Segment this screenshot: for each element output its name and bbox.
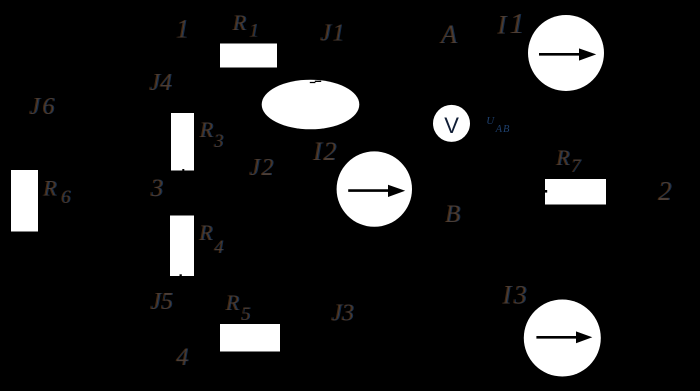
svg-text:R: R: [42, 175, 57, 200]
svg-text:4: 4: [214, 237, 224, 258]
svg-text:7: 7: [571, 156, 582, 177]
svg-text:U: U: [486, 115, 495, 127]
svg-text:R: R: [555, 145, 570, 170]
resistor R3: [171, 113, 194, 171]
resistor label R3: [198, 117, 224, 152]
current source I1: [528, 15, 604, 91]
voltage source E (ellipse): [262, 80, 360, 130]
branch label J1: [320, 21, 347, 47]
svg-text:R: R: [231, 10, 246, 35]
branch label J4: [149, 70, 173, 96]
resistor R7: [545, 179, 606, 205]
svg-text:J6: J6: [29, 94, 57, 120]
branch label J5: [150, 289, 174, 315]
branch label J3: [331, 301, 355, 327]
source label I2: [312, 137, 339, 166]
svg-text:5: 5: [241, 304, 251, 325]
voltmeter V: [433, 105, 470, 142]
svg-text:2: 2: [658, 176, 672, 206]
node 2 label: [658, 176, 673, 206]
source label I3: [501, 281, 530, 310]
svg-text:1: 1: [249, 21, 258, 42]
node A label: [439, 20, 458, 49]
source label I1: [496, 8, 525, 40]
svg-text:J2: J2: [249, 155, 275, 181]
resistor R6: [11, 170, 38, 232]
svg-text:1: 1: [176, 14, 189, 43]
svg-text:I: I: [496, 11, 507, 40]
svg-text:B: B: [445, 201, 460, 228]
svg-text:3: 3: [149, 175, 163, 202]
svg-text:J3: J3: [331, 301, 354, 327]
node B label: [445, 201, 461, 228]
branch label J2: [249, 155, 276, 181]
svg-text:6: 6: [61, 187, 71, 208]
resistor label R5: [224, 290, 251, 325]
svg-text:I2: I2: [312, 137, 338, 166]
svg-text:V: V: [444, 113, 459, 138]
wire stub under R3: [182, 169, 184, 171]
resistor R1: [220, 44, 277, 68]
svg-text:A: A: [439, 20, 457, 49]
svg-text:R: R: [224, 290, 239, 315]
resistor label R7: [555, 145, 583, 177]
svg-text:AB: AB: [495, 124, 511, 135]
tick mark on ellipse top: [310, 81, 321, 82]
resistor label R6: [42, 175, 72, 208]
resistor label R1: [231, 10, 259, 42]
current source I2: [337, 151, 412, 226]
resistor label R4: [198, 220, 225, 258]
node 4 label: [176, 344, 190, 371]
svg-text:R: R: [198, 117, 213, 142]
resistor R5: [220, 324, 280, 352]
svg-text:J5: J5: [150, 289, 173, 315]
branch label J6: [29, 94, 58, 120]
svg-text:J1: J1: [320, 21, 346, 47]
current source I3: [524, 300, 601, 377]
wire stub under R4: [180, 274, 182, 276]
wire stub on R7 left edge: [545, 190, 547, 193]
node 1 label: [176, 14, 190, 43]
node 3 label: [149, 175, 164, 202]
svg-text:R: R: [198, 220, 213, 245]
svg-text:3: 3: [213, 131, 224, 152]
voltage label UAB: [486, 115, 510, 135]
svg-text:J4: J4: [149, 70, 172, 96]
svg-text:4: 4: [176, 344, 189, 371]
svg-text:1: 1: [509, 8, 524, 40]
svg-text:I3: I3: [501, 281, 529, 310]
resistor R4: [170, 216, 194, 277]
